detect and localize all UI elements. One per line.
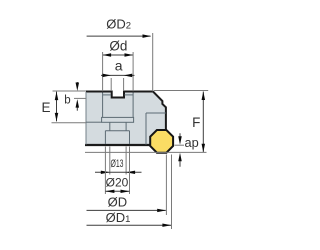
dim F arrows [202,92,206,101]
svg-text:b: b [64,95,70,107]
insert pocket line [146,112,166,114]
insert pocket back wall [145,113,147,145]
E top reference line [53,90,87,92]
dim Od line [103,54,133,56]
svg-text:Ø20: Ø20 [106,176,129,190]
bore wall left [109,122,111,130]
svg-text:Ød: Ød [109,39,127,54]
body top profile and right chamfer (thick) [86,92,166,131]
dim OD2 extension line [152,33,154,91]
dim OD2 arrow [143,34,152,38]
dim O13 arrows (outside, pointing in) [101,171,110,174]
svg-text:ap: ap [185,135,199,150]
dim E arrows [55,92,59,101]
ap reference tick [175,144,185,146]
dim Od arrows [103,53,112,57]
OD extension line [165,155,167,216]
dim a line [101,74,135,76]
svg-text:ØD: ØD [108,194,128,209]
bore wall right [125,122,127,130]
dim b lower arrow [76,104,78,111]
dim E line [56,92,58,122]
svg-text:Ø13: Ø13 [111,158,124,170]
dim OD2 line [87,35,151,37]
dim OD1 arrow [162,224,171,227]
seat plane line (left) [86,121,102,123]
body bottom face (thick) [85,144,166,146]
dim O13 line [95,171,142,173]
dim ap lower arrow [179,158,181,167]
svg-text:ØD2: ØD2 [106,17,131,32]
seat ledge right [125,94,134,96]
svg-text:ØD1: ØD1 [106,210,131,225]
counterbore seat bar [102,117,134,122]
b lower reference line (slot bottom) [74,97,86,99]
bottom recess wall left [104,131,106,144]
dim O20 arrows [105,190,114,193]
bottom recess wall right [129,131,131,144]
seat ledge left [103,94,111,96]
cutter body fill [86,92,166,146]
F top reference line [154,90,208,92]
dim ap upper arrow [179,133,181,139]
svg-text:a: a [115,57,123,73]
dim Od extension lines [103,52,134,91]
dim O20 line [105,190,129,192]
svg-text:E: E [41,100,50,115]
dim OD arrow [157,209,166,212]
O20 extension lines [105,147,129,195]
dim b upper arrow [76,82,78,88]
octagonal insert [150,130,173,153]
seat bore wall right [132,93,134,118]
body left edge (thin) [85,92,87,145]
bottom recess top line [105,130,129,132]
svg-text:F: F [192,115,200,130]
dim OD1 line [87,224,172,226]
dim a arrows (outside, pointing in) [103,74,112,78]
O13 extension lines [110,147,126,175]
OD1 extension line [171,155,173,230]
dim a extension lines [111,78,123,91]
dim F line [202,92,204,153]
dim OD line [87,209,166,211]
E bottom reference line [52,122,87,124]
seat bore wall left [102,93,104,118]
F bottom reference line (insert tip plane) [85,151,207,153]
